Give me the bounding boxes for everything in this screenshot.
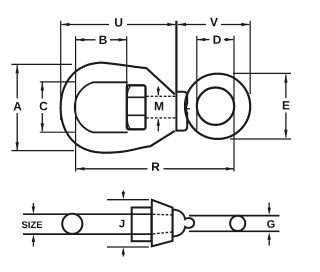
nut (pin head) [127, 85, 146, 129]
arrow SIZE top (down) [32, 207, 35, 215]
bell inner cavity outline [75, 82, 128, 132]
arrow M bottom (points up) [157, 119, 160, 126]
arrow C bottom [41, 123, 44, 131]
label M [155, 102, 163, 110]
label V [210, 18, 218, 26]
rod right segment [189, 215, 280, 217]
arrow E top [284, 74, 287, 82]
arrow C top [41, 82, 44, 90]
label U [115, 18, 122, 26]
label J [119, 220, 124, 228]
arrow J top (down) [122, 192, 125, 200]
square head block [132, 208, 152, 242]
dimension line D [197, 39, 209, 41]
SIZE arrows [33, 191, 269, 257]
arrow V left [178, 23, 186, 26]
dome and nipple (collar side view) [173, 209, 194, 236]
label R [152, 163, 160, 171]
arrow D left [197, 38, 205, 41]
arrow G top (down) [268, 208, 271, 216]
label A [14, 102, 22, 110]
left eye circle (edge view) [62, 214, 82, 234]
arrow G bottom (up) [268, 232, 271, 240]
collar at joint [176, 92, 190, 131]
arrowheads [16, 23, 288, 171]
J extension bottom [107, 246, 149, 248]
dimension line A [16, 65, 18, 98]
arrow A bottom [16, 142, 19, 150]
eye inner circle [197, 88, 234, 125]
arrow A top [16, 65, 19, 73]
arrow D right [225, 38, 233, 41]
extension line C top [40, 81, 76, 83]
labels (as vector paths, Liberation Sans Bold) [14, 18, 290, 228]
dimension line U [62, 24, 110, 26]
right eye circle (edge view) [230, 216, 245, 231]
J arrows [122, 191, 124, 194]
extension line A bottom [11, 150, 74, 152]
extension line A top [11, 63, 72, 65]
G arrows [268, 203, 270, 209]
extension line B/R left [75, 36, 77, 171]
label SIZE [22, 221, 43, 228]
arrow V right [241, 23, 249, 26]
eye outer circle [185, 74, 250, 139]
extension line E top [233, 72, 291, 74]
extension line B right [126, 36, 128, 87]
extension line U left (bell leftmost) [60, 21, 62, 120]
extension line U/V divider at joint [175, 21, 177, 92]
label D [214, 36, 221, 44]
dimension arrows M [157, 87, 159, 96]
arrow R left [76, 167, 84, 170]
arrow J bottom (up) [122, 247, 125, 255]
extension line D left [196, 36, 198, 130]
label G [267, 220, 274, 228]
dimension line C [41, 83, 43, 99]
arrow M top (points down) [157, 89, 160, 96]
arrow E bottom [284, 130, 287, 138]
dimension line R [77, 168, 148, 170]
arrow SIZE bottom (up) [32, 235, 35, 243]
arrow U right [167, 23, 175, 26]
hidden rod through cone (dotted) [153, 214, 172, 234]
extension line D/R right [233, 36, 235, 172]
bell outer outline [61, 63, 175, 153]
label C [40, 102, 48, 111]
dimension line B [76, 39, 96, 41]
dimension line E [285, 75, 287, 98]
bell cone (side view) [152, 200, 173, 247]
J extension top [107, 199, 149, 201]
extension line C bottom [40, 131, 76, 133]
arrow R right [226, 167, 234, 170]
arrow U left [61, 23, 69, 26]
extension line E bottom [230, 138, 291, 140]
hidden stem dashed lines (M) [146, 96, 175, 118]
label B [100, 36, 107, 44]
extension line V right [249, 21, 251, 94]
rod left segment [23, 214, 280, 234]
arrow B right [119, 38, 127, 41]
dimension line V [178, 24, 206, 26]
arrow B left [76, 38, 84, 41]
label E [283, 101, 290, 109]
